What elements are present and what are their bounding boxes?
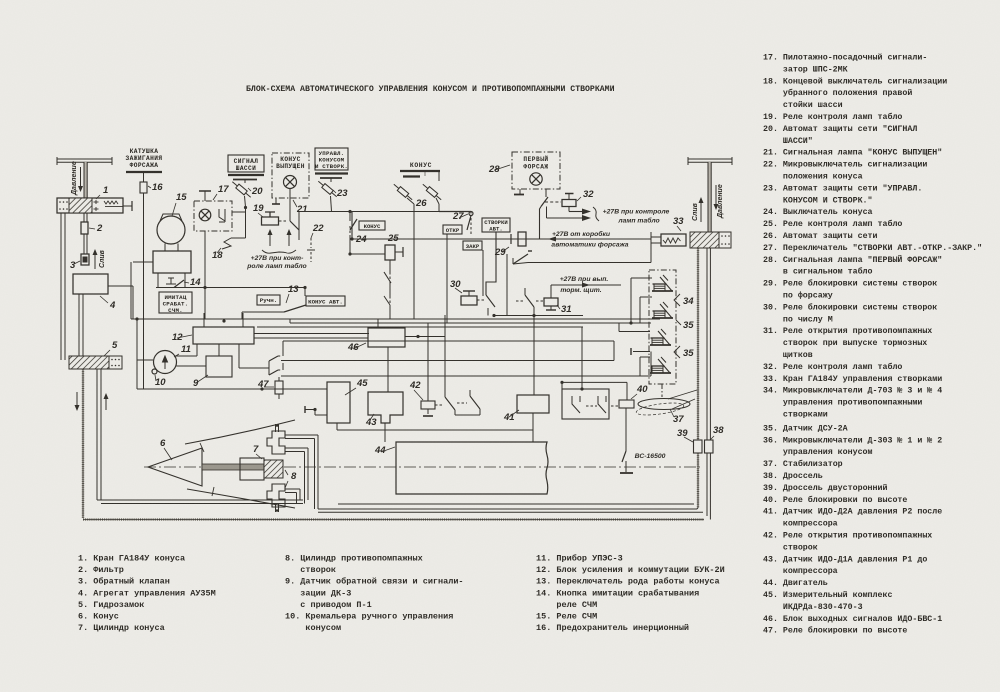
contact pair right of 30 <box>486 295 495 307</box>
valve 1 spring (right chamber) <box>104 201 118 204</box>
dashes pivot to relay 32 <box>545 201 561 203</box>
microswitch 34a <box>652 275 673 291</box>
relay 15 body <box>153 251 191 273</box>
wire: x143.5 continues to bottom rail <box>143 319 145 389</box>
relay 47 <box>275 381 283 394</box>
bus y382 <box>562 381 627 383</box>
box 46 ИДО-БВС <box>368 328 405 347</box>
relay 25 coil <box>385 245 395 260</box>
pipe: bottom left loop outer (speckled) <box>83 518 704 521</box>
wire node 350 y254 <box>348 252 351 255</box>
wire: 26b to bus211 <box>436 198 439 204</box>
lamp inside 17 <box>199 209 211 221</box>
wire left edge x131 down <box>130 262 132 319</box>
flap cylinder 8 upper <box>267 431 285 454</box>
arrow down (pressure right) <box>715 185 717 207</box>
wire bus430 to 44 <box>384 430 386 442</box>
curly brace right of arrows <box>593 207 599 221</box>
wire 12 down-left to 11 top <box>196 344 198 356</box>
pipe: hydrolock down right branch <box>96 369 98 500</box>
relay 15 СЧМ dome <box>157 216 185 244</box>
intake lip lower <box>187 489 295 508</box>
curly brace under arrows <box>262 250 296 253</box>
bus y327 <box>257 326 583 328</box>
dash-dot box microswitches <box>649 270 676 384</box>
relay 32 coil <box>562 200 576 207</box>
wire 46 bottom to 43 <box>387 347 389 392</box>
box СИГНАЛ ШАССИ <box>228 155 264 172</box>
box 12 БУК <box>193 327 254 344</box>
arrow +27В при вып <box>551 284 621 286</box>
bus y360 long <box>281 360 614 362</box>
actuator rod into lower cylinder 8 <box>275 504 277 512</box>
wire blade to +27 arrow 2 <box>546 207 548 219</box>
box КОНУС ВЫПУЩЕН (dash-dot) <box>272 153 309 198</box>
breaker 23 <box>317 179 339 198</box>
bottom rail y389 left segment <box>137 388 262 390</box>
switch blade 21-> <box>290 221 299 230</box>
wire 305 node down <box>304 288 306 297</box>
bus y376 long <box>281 375 651 377</box>
wire: СЧМ left down x133-x153 <box>133 261 153 263</box>
wire lamp28 down to blade <box>545 189 547 197</box>
wire pivot down to y239 line <box>540 207 542 240</box>
steps to bus from contacts <box>282 341 284 349</box>
lamp box 17 (dash-dot) <box>194 201 232 231</box>
intake lip upper <box>185 420 295 444</box>
42 dashed right <box>435 404 444 406</box>
wires 15 body down <box>157 273 159 288</box>
engine centerline dash-dot <box>144 466 700 468</box>
node dots on buses <box>135 317 138 320</box>
selector 13 blade <box>284 305 306 312</box>
breaker 20 <box>231 180 253 199</box>
pipe: valve1 to filter <box>83 213 85 222</box>
pipe: valve33 down right pair <box>706 248 708 441</box>
dashed contacts right of 9 <box>268 361 270 375</box>
bus y287 (СЧМ row) <box>156 287 306 289</box>
cone shaft <box>202 464 264 470</box>
bus y323 second horizontal <box>290 322 651 324</box>
pipe: top-left supply header <box>57 158 112 160</box>
pipe: hydrolock down left branch (speckled) <box>82 369 85 518</box>
wire 46 top lead <box>377 319 379 328</box>
bus y319 main horizontal <box>131 318 660 320</box>
wire: box17 to node 245 <box>232 211 246 213</box>
wire +27В от коробки line <box>352 238 651 240</box>
wire 12 bottom to 9 <box>218 344 220 356</box>
knob 10 <box>152 369 157 374</box>
contacts 42-41 <box>445 397 455 410</box>
wire 47 vertical <box>278 377 280 381</box>
button 14 symbol <box>166 278 176 284</box>
pipe: top-right header <box>688 158 732 160</box>
wire x582 down to contact box <box>581 327 583 389</box>
node bus211/350 <box>348 210 351 213</box>
arrows +27V under 19 <box>269 232 271 246</box>
pipes from upper cylinder 8 <box>285 434 318 436</box>
box ПЕРВЫЙ ФОРСАЖ (dash-dot) <box>512 152 560 189</box>
box СТВОРКИ АВТ <box>482 218 510 232</box>
enclosure left wire x137 to instrument <box>136 319 138 360</box>
switch 27 pivot <box>469 212 473 216</box>
wire 25 to node350 <box>350 253 385 255</box>
pipe: 39 down to bottom bend <box>697 453 700 508</box>
dashed left of 31 <box>536 300 543 302</box>
cylinder 7 <box>240 458 264 480</box>
wire: 23 down to bus211 <box>331 196 332 212</box>
valve 1 right lead with bar <box>123 205 132 207</box>
breaker 26a <box>392 182 414 201</box>
engine box 44 <box>396 442 548 494</box>
hydrolock 5 <box>69 356 109 369</box>
wire 11 to 9 <box>177 365 207 367</box>
microswitch 34b <box>652 302 673 318</box>
wire: 16 down to bus y319 <box>143 193 145 319</box>
relay 30 coil <box>461 296 477 305</box>
wire bus211 to 27 <box>439 211 471 213</box>
busbars under КОНУС <box>400 170 440 172</box>
busbar under УПРАВЛ <box>315 172 348 174</box>
node at 245,207 <box>244 206 247 209</box>
pipe: left bypass from valve1 down to hydrolock 5 <box>60 213 62 360</box>
check valve 3 <box>81 254 89 265</box>
throttle 38 <box>705 440 714 453</box>
ground bar left of 28 box <box>519 189 521 195</box>
pipe: filter to check valve <box>83 234 85 254</box>
relay 19 coil <box>262 217 279 225</box>
lamp 28 <box>530 173 542 185</box>
actuator rod into upper cylinder 8 <box>275 424 277 432</box>
lamp 21 <box>284 176 297 189</box>
relay 42 <box>421 401 435 409</box>
stabilizer 37 airfoil <box>638 399 690 410</box>
busbar under катушка <box>126 171 162 173</box>
pipe: vertical drop right <box>708 162 711 232</box>
contact 18 zigzag <box>222 238 231 249</box>
dashed contact 22 <box>310 238 312 248</box>
throttle 39 <box>694 440 703 453</box>
wire: 299 down to bus211 <box>298 212 300 231</box>
unit 4: агрегат АУ35М <box>73 274 108 294</box>
dash-dot from group down to stabilizer <box>661 384 663 397</box>
box 43 ИДО-Д1А <box>368 392 403 423</box>
wire: from unit4 right to vertical x133 <box>108 285 133 287</box>
wire: 29 contact to right riser <box>513 263 528 265</box>
microswitch 35a <box>650 329 671 345</box>
pipes from lower cylinder 8 <box>285 488 300 490</box>
relay contact inside 17 <box>219 209 225 222</box>
instrument 11 УПЭС-3 <box>154 351 177 374</box>
wire 40 down + switch + ground ВС-16500 <box>625 408 627 451</box>
contact below 29 <box>513 254 528 264</box>
wire 25 down + contacts <box>389 260 391 272</box>
arrow up (drain right) <box>700 200 702 222</box>
pipe bends at bottom right <box>697 508 698 509</box>
wire 12 leads up <box>203 313 205 327</box>
bus y430 sensors <box>337 429 533 431</box>
42 ground <box>427 409 429 414</box>
wire 32 to +27 arrow 1 <box>568 207 570 212</box>
wire y315 to 41 <box>533 307 535 395</box>
pipe: 38 down to outer bottom <box>706 453 708 516</box>
switch blade under 28 <box>541 197 548 207</box>
wire 12 right leads <box>254 333 369 335</box>
pipe: bottom long pair right section <box>318 508 697 510</box>
cone 6 triangle <box>148 448 202 486</box>
pipe: valve33 down left (speckled) <box>697 248 700 440</box>
wire from 13 to left <box>242 311 284 313</box>
wire 262 to 45 <box>262 388 327 390</box>
41 tab down to bus430 <box>532 413 534 442</box>
box РУЧН. <box>257 295 280 305</box>
wire y504 bottom single <box>338 503 694 505</box>
contact 2 (x525) <box>516 300 524 302</box>
wire 12 right lead to contacts <box>238 344 240 368</box>
wire: bus y211 horizontal <box>299 211 439 213</box>
wire 46 right lead <box>405 336 445 338</box>
box 9 датчик ДК-3 <box>206 356 232 377</box>
ground bar under 21 box <box>275 198 277 204</box>
valve 33 left leads <box>651 236 661 238</box>
box 41 ИДО-Д2А <box>517 395 549 413</box>
relay 31 coil <box>544 298 558 306</box>
pipe: bottom inner pair to cylinders <box>97 499 303 501</box>
dashed 30 to contact <box>477 299 486 301</box>
wire: 26a to vertical <box>407 198 414 204</box>
breaker 26b <box>421 182 443 201</box>
arrow up (drain left) <box>94 252 96 269</box>
arrow up on right pipe <box>105 396 107 410</box>
45 left lead with T <box>304 406 306 413</box>
arrow down (pressure left) <box>80 167 82 189</box>
wire СТВОРКИ АВТ down to contact <box>486 232 496 295</box>
wire: 20 down to node <box>245 196 246 207</box>
valve 1: кран ГА184У конуса <box>57 198 123 213</box>
relay 15 neck <box>164 244 166 252</box>
arrow down on left pipe <box>76 392 78 408</box>
box ИМИТАЦ СРАБАТ СЧМ <box>159 292 192 313</box>
box ОТКР <box>443 225 462 234</box>
relay 40 <box>619 400 634 408</box>
pipe: 4 down to hydrolock <box>78 294 80 357</box>
wire: node350 to 239 line <box>351 212 353 240</box>
microswitch 35b <box>650 357 671 373</box>
flap cylinder 8 lower <box>267 484 285 507</box>
box УПРАВЛ КОНУСОМ И СТВОРК <box>315 148 348 170</box>
wire: lamp21 down to switch <box>289 189 291 222</box>
wires to microswitches <box>631 277 652 279</box>
wire: lamp17 down to bus <box>204 231 206 287</box>
filter 2 <box>81 222 88 234</box>
relay 29 coil <box>518 232 526 246</box>
box 45 ИКДРДа <box>327 382 350 423</box>
box label КОНУС (switch 24) <box>359 221 385 230</box>
busbar under СИГНАЛ ШАССИ <box>228 174 264 176</box>
wire risers x428,x445 <box>427 323 429 401</box>
box ЗАКР <box>463 241 482 250</box>
valve 33: кран ГА184У створок <box>690 232 719 248</box>
switch 24 blade <box>350 219 357 230</box>
wire segment y415 under contacts <box>455 414 480 416</box>
T-bar above 17 <box>199 190 211 192</box>
wire 27 down branches <box>446 234 448 265</box>
box КОНУС АВТ. <box>306 296 345 306</box>
wire 29 down to bus <box>506 254 508 316</box>
wire: down then left to contact 18 <box>245 207 247 238</box>
valve 33 spring chamber <box>661 234 686 246</box>
pipe: vertical drop to valve 1 <box>84 162 87 198</box>
dashed link 19-switch <box>279 220 288 222</box>
fuse 16 (inertial) <box>140 182 147 193</box>
box with contacts (42 relay contacts) <box>562 389 609 419</box>
